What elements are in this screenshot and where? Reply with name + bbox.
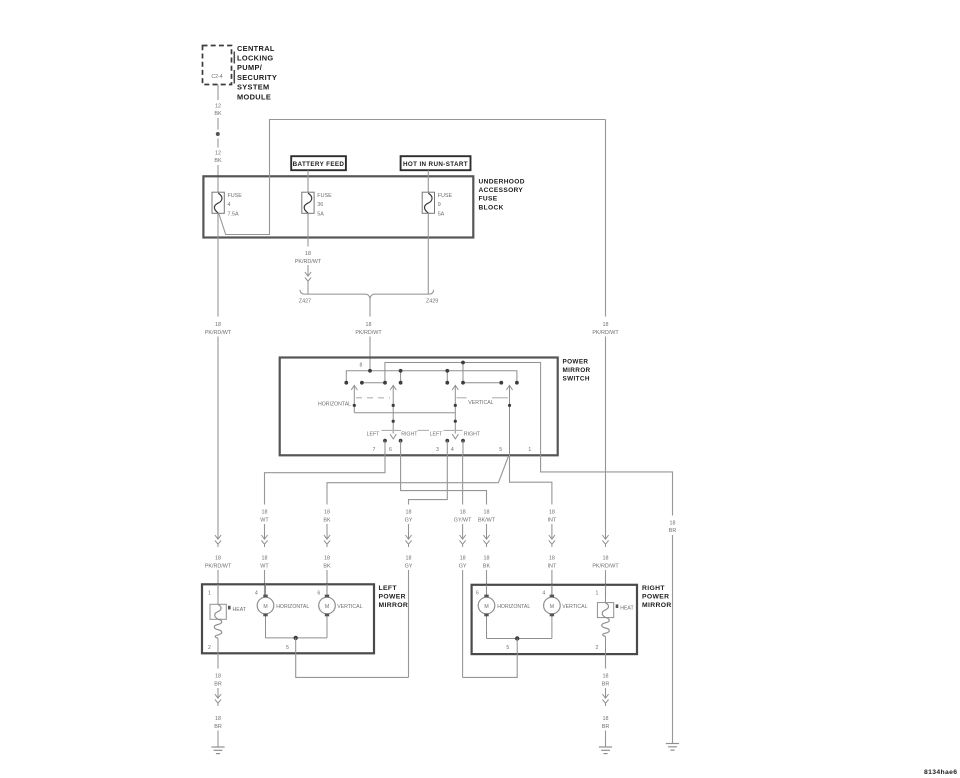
left mirror name [379, 585, 409, 609]
svg-text:ACCESSORY: ACCESSORY [479, 187, 524, 194]
svg-text:18: 18 [262, 510, 268, 516]
wire hot-in-run into fuse 9 [427, 170, 429, 192]
svg-text:4: 4 [542, 591, 545, 597]
wire right heater ground (18 BR) [605, 654, 607, 668]
heater element (left mirror) [210, 584, 226, 653]
svg-text:HORIZONTAL: HORIZONTAL [318, 402, 351, 408]
svg-text:BR: BR [669, 528, 677, 534]
ground G (left mirror) [211, 747, 224, 754]
svg-text:18: 18 [305, 251, 311, 257]
svg-text:Z427: Z427 [299, 299, 311, 305]
wire right mirror common return to 18 GY/WT [463, 654, 518, 677]
svg-text:18: 18 [460, 510, 466, 516]
wire column 18 GY [405, 510, 413, 678]
wire column 18 BK/WT [478, 510, 496, 598]
inline connector (right ground) [602, 692, 608, 706]
wire column 18 INT [548, 510, 557, 598]
svg-text:36: 36 [317, 202, 323, 208]
svg-text:PK/RD/WT: PK/RD/WT [592, 330, 619, 336]
wire pin7 to 18 WT [265, 455, 386, 505]
svg-text:MIRROR: MIRROR [563, 367, 591, 374]
svg-text:VERTICAL: VERTICAL [468, 400, 493, 406]
svg-text:RIGHT: RIGHT [401, 432, 418, 438]
svg-text:PUMP/: PUMP/ [237, 63, 262, 72]
svg-text:BR: BR [602, 724, 610, 730]
wire into switch pin 8 [369, 337, 371, 371]
svg-text:18: 18 [215, 716, 221, 722]
wire column 18 BK [323, 510, 331, 598]
svg-text:INT: INT [548, 564, 557, 570]
svg-text:HEAT: HEAT [233, 607, 247, 613]
wire left feed to mirror [217, 570, 219, 598]
svg-text:18: 18 [460, 556, 466, 562]
motor M vertical (right mirror) [544, 585, 561, 639]
svg-text:SYSTEM: SYSTEM [237, 83, 270, 92]
fuse 4 (7.5A) [212, 192, 224, 213]
wire left mirror common return to 18 GY [296, 653, 409, 677]
left power mirror box [202, 584, 374, 653]
svg-text:FUSE: FUSE [438, 193, 453, 199]
svg-text:18: 18 [549, 510, 555, 516]
svg-text:18: 18 [406, 556, 412, 562]
svg-text:BATTERY FEED: BATTERY FEED [293, 161, 345, 168]
ground G (right mirror heater) [599, 747, 612, 754]
wiper W4 (vertical, right) [506, 385, 512, 455]
svg-text:9: 9 [438, 202, 441, 208]
svg-text:GY: GY [405, 564, 413, 570]
svg-text:PK/RD/WT: PK/RD/WT [355, 330, 382, 336]
lower contact dots [383, 439, 465, 443]
battery feed label box [291, 156, 346, 170]
svg-text:12: 12 [215, 104, 221, 110]
motor common rail (left mirror) [266, 637, 328, 639]
svg-text:18: 18 [215, 674, 221, 680]
splice node [216, 132, 220, 136]
wire pin1 ground run [672, 535, 674, 744]
svg-text:6: 6 [476, 591, 479, 597]
svg-text:5: 5 [506, 645, 509, 651]
svg-text:6: 6 [389, 447, 392, 453]
svg-text:7.5A: 7.5A [228, 212, 239, 218]
svg-text:RIGHT: RIGHT [464, 432, 481, 438]
svg-text:PK/RD/WT: PK/RD/WT [205, 564, 232, 570]
svg-text:BK/WT: BK/WT [478, 518, 496, 524]
svg-text:8: 8 [360, 363, 363, 369]
bottom mechanical link (dashed) with LEFT/RIGHT labels [382, 429, 463, 431]
svg-text:BK: BK [323, 564, 331, 570]
wire fuse 36 output [307, 213, 309, 246]
wire right feed to mirror [605, 570, 607, 598]
svg-text:Z429: Z429 [426, 299, 438, 305]
wire fuse 4 output down left side [217, 213, 219, 316]
wiper W3 (vertical, left) [452, 385, 458, 433]
wire left feed continues to connector [217, 337, 219, 534]
power mirror switch box [280, 358, 558, 456]
svg-text:LEFT: LEFT [430, 432, 444, 438]
svg-text:C2-4: C2-4 [211, 74, 222, 80]
svg-text:PK/RD/WT: PK/RD/WT [295, 259, 322, 265]
fuse block name [479, 179, 525, 212]
svg-text:18: 18 [406, 510, 412, 516]
wiper W2 (horizontal, right) [390, 385, 396, 433]
motor common rail (right mirror) [487, 638, 552, 640]
motor M horizontal (left mirror) [257, 584, 274, 638]
svg-text:5A: 5A [317, 212, 324, 218]
svg-text:5: 5 [286, 645, 289, 651]
svg-text:BR: BR [602, 682, 610, 688]
wire connector to brace [307, 284, 309, 294]
module bracket tick upper [233, 52, 235, 64]
wire right feed continues to connector [605, 337, 607, 534]
svg-text:18: 18 [262, 556, 268, 562]
svg-text:18: 18 [603, 674, 609, 680]
heater element (right mirror) [597, 585, 613, 654]
vertical axis mechanical link (dashed) [457, 397, 467, 399]
inline connector (left ground) [215, 692, 221, 706]
junction node pin5 [294, 636, 298, 640]
inline connector on left feed [215, 533, 221, 547]
svg-text:POWER: POWER [379, 594, 406, 601]
connector C2 dashed box (central locking pump module) [203, 46, 232, 85]
wire pin3 to 18 GY [409, 455, 448, 505]
wire battery feed into fuse 36 [307, 170, 309, 192]
svg-text:18: 18 [215, 322, 221, 328]
drop bus A to contact (x400.6) [400, 371, 402, 383]
fuse 9 (5A) [422, 192, 434, 213]
drop bus A to contact (x447.3) [446, 371, 448, 383]
wiper W3 lower arrow [452, 434, 458, 439]
horizontal axis mechanical link (dashed) [356, 397, 390, 399]
heater label [228, 606, 231, 610]
svg-text:BK: BK [323, 518, 331, 524]
wire brace to switch pin 8 [369, 299, 371, 317]
drop bus B to contact (x463) [462, 363, 464, 383]
svg-text:1: 1 [208, 591, 211, 597]
svg-text:18: 18 [484, 556, 490, 562]
svg-text:MIRROR: MIRROR [379, 602, 409, 609]
svg-text:HEAT: HEAT [620, 606, 634, 612]
switch name [563, 359, 591, 383]
wire fuse 9 output to brace [427, 213, 429, 294]
svg-text:BR: BR [214, 724, 222, 730]
svg-text:2: 2 [596, 645, 599, 651]
svg-text:8134hae6: 8134hae6 [924, 769, 957, 776]
contact link left group [362, 382, 385, 384]
underhood accessory fuse block box [203, 176, 473, 237]
svg-text:UNDERHOOD: UNDERHOOD [479, 179, 525, 186]
right mirror name [642, 585, 672, 609]
right power mirror box [472, 585, 637, 654]
wire pin1 to 18 BR ground [541, 455, 673, 516]
junction dots on buses [368, 361, 465, 373]
svg-text:LEFT: LEFT [367, 432, 381, 438]
contact link right group [463, 382, 501, 384]
svg-text:18: 18 [549, 556, 555, 562]
wire pin5 branch (diagonal) to 18 BK [327, 457, 508, 505]
hot in run-start label box [401, 156, 471, 170]
svg-text:HORIZONTAL: HORIZONTAL [276, 604, 309, 610]
svg-text:RIGHT: RIGHT [642, 585, 665, 592]
wire pin5 exit [295, 638, 297, 653]
svg-text:BR: BR [214, 682, 222, 688]
svg-text:BK: BK [483, 564, 491, 570]
wire pin6 to 18 BK/WT [401, 455, 487, 505]
wiper W1 (horizontal, left) [351, 385, 357, 412]
svg-text:BK: BK [214, 111, 222, 117]
svg-text:VERTICAL: VERTICAL [337, 604, 362, 610]
svg-text:18: 18 [324, 510, 330, 516]
svg-text:18: 18 [484, 510, 490, 516]
svg-text:CENTRAL: CENTRAL [237, 44, 275, 53]
svg-text:3: 3 [436, 447, 439, 453]
module name: CENTRAL LOCKING PUMP/SECURITY SYSTEM MODULE [237, 44, 277, 102]
svg-text:GY: GY [459, 564, 467, 570]
svg-text:2: 2 [208, 645, 211, 651]
svg-text:5: 5 [499, 447, 502, 453]
switch bus B (upper) [385, 363, 541, 456]
svg-text:FUSE: FUSE [479, 196, 498, 203]
wiper W2 lower arrow [390, 434, 396, 439]
wire right feed down to label [605, 120, 607, 317]
svg-text:BK: BK [214, 158, 222, 164]
motor M vertical (left mirror) [319, 584, 336, 638]
wire to inline connector [307, 265, 309, 270]
svg-text:4: 4 [228, 202, 231, 208]
svg-text:1: 1 [528, 447, 531, 453]
svg-text:LOCKING: LOCKING [237, 54, 274, 63]
svg-text:WT: WT [260, 564, 269, 570]
svg-text:GY/WT: GY/WT [454, 518, 472, 524]
svg-text:WT: WT [260, 518, 269, 524]
svg-text:INT: INT [548, 518, 557, 524]
svg-text:4: 4 [451, 447, 454, 453]
wire fuse 4 branch to right mirror feed (diagonal inside fuse block) [219, 120, 606, 235]
wire pin4 (18 GY/WT) [462, 455, 464, 505]
svg-text:M: M [263, 604, 267, 610]
wire pin5 exit (right) [516, 639, 518, 655]
svg-text:FUSE: FUSE [228, 193, 243, 199]
svg-text:1: 1 [596, 591, 599, 597]
heater label [616, 604, 619, 608]
svg-text:M: M [550, 604, 554, 610]
svg-text:SWITCH: SWITCH [563, 376, 590, 383]
module bracket tick lower [233, 70, 235, 84]
pin leads to box bottom [385, 441, 463, 455]
svg-text:6: 6 [317, 591, 320, 597]
inline connector on right feed [602, 533, 608, 547]
svg-text:4: 4 [255, 591, 258, 597]
wire pin5 to 18 INT [510, 455, 552, 505]
svg-text:FUSE: FUSE [317, 193, 332, 199]
svg-text:18: 18 [366, 322, 372, 328]
svg-text:18: 18 [603, 556, 609, 562]
svg-text:M: M [484, 604, 488, 610]
fuse 36 (5A) [302, 192, 314, 213]
svg-text:LEFT: LEFT [379, 585, 398, 592]
svg-text:PK/RD/WT: PK/RD/WT [592, 564, 619, 570]
svg-text:12: 12 [215, 151, 221, 157]
wire from module to splice (12 BK) [217, 85, 219, 130]
svg-text:18: 18 [603, 322, 609, 328]
svg-text:18: 18 [603, 716, 609, 722]
junction node pin5 (right) [515, 636, 519, 640]
svg-text:5A: 5A [438, 212, 445, 218]
svg-text:HORIZONTAL: HORIZONTAL [497, 604, 530, 610]
wire from splice to fuse block (12 BK) [217, 139, 219, 193]
svg-text:MODULE: MODULE [237, 92, 271, 101]
switch bus A (lower) [346, 371, 517, 383]
svg-text:18: 18 [215, 556, 221, 562]
svg-text:VERTICAL: VERTICAL [562, 604, 587, 610]
wiper common rail [354, 412, 455, 414]
svg-text:POWER: POWER [642, 594, 669, 601]
svg-text:GY: GY [405, 518, 413, 524]
inline connector (fuse 36 circuit) [305, 270, 311, 284]
wire column 18 WT [260, 510, 269, 598]
wire left heater ground (18 BR) [217, 653, 219, 668]
svg-text:MIRROR: MIRROR [642, 602, 672, 609]
brace joining Z427 and Z429 [300, 290, 434, 299]
upper contact dots row [344, 381, 518, 385]
motor M horizontal (right mirror) [478, 585, 495, 639]
svg-text:18: 18 [670, 521, 676, 527]
svg-text:POWER: POWER [563, 359, 589, 366]
wire column 18 GY/WT [454, 510, 472, 678]
svg-text:BLOCK: BLOCK [479, 204, 504, 211]
svg-text:M: M [325, 604, 329, 610]
svg-text:7: 7 [373, 447, 376, 453]
svg-text:18: 18 [324, 556, 330, 562]
svg-text:HOT IN RUN-START: HOT IN RUN-START [403, 161, 468, 168]
svg-text:SECURITY: SECURITY [237, 73, 277, 82]
ground G (right, pin1) [666, 744, 679, 751]
svg-text:PK/RD/WT: PK/RD/WT [205, 330, 232, 336]
